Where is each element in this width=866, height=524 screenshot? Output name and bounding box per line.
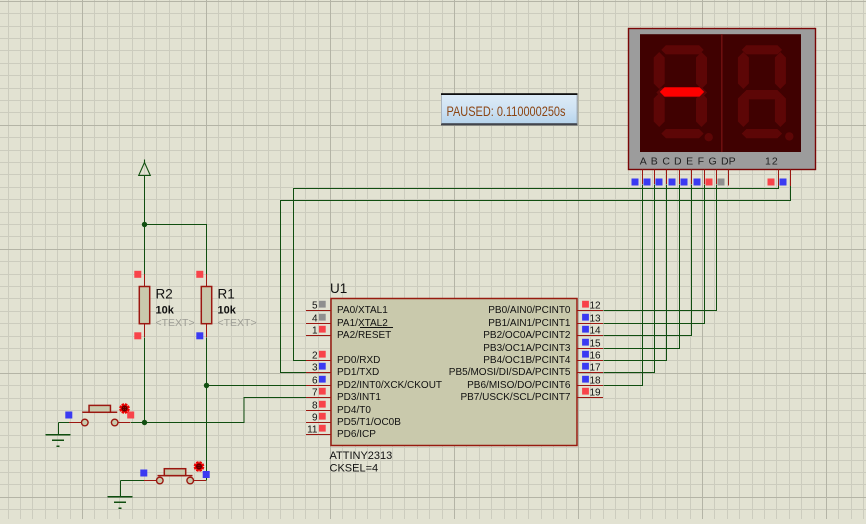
svg-text:C: C bbox=[662, 156, 670, 168]
U1 pin 15 state square bbox=[582, 339, 589, 346]
svg-text:17: 17 bbox=[590, 363, 602, 374]
svg-text:19: 19 bbox=[590, 388, 602, 399]
svg-text:B: B bbox=[651, 156, 658, 168]
U1 pin 19 number bbox=[590, 388, 602, 399]
U1 pin 3 name PD1/TXD bbox=[337, 367, 379, 378]
U1 pin 1 stub bbox=[306, 335, 331, 337]
svg-text:CKSEL=4: CKSEL=4 bbox=[330, 463, 379, 475]
U1 pin 4 number bbox=[312, 314, 318, 325]
svg-text:PD6/ICP: PD6/ICP bbox=[337, 429, 376, 440]
wire display segment G to MCU pin 12 bbox=[604, 185, 717, 311]
U1 pin 18 stub bbox=[577, 385, 603, 387]
svg-text:3: 3 bbox=[312, 363, 318, 374]
U1 pin 3 stub bbox=[306, 372, 331, 374]
U1 pin 19 stub bbox=[577, 397, 603, 399]
display segment pin C state square bbox=[656, 179, 663, 186]
svg-text:PD3/INT1: PD3/INT1 bbox=[337, 392, 381, 403]
U1 pin 7 state square bbox=[319, 388, 326, 395]
wire display segment D to MCU pin 15 bbox=[604, 185, 680, 349]
svg-text:E: E bbox=[686, 156, 693, 168]
U1 pin 11 name PD6/ICP bbox=[337, 429, 376, 440]
svg-text:18: 18 bbox=[590, 376, 602, 387]
svg-text:PD2/INT0/XCK/CKOUT: PD2/INT0/XCK/CKOUT bbox=[337, 380, 442, 391]
display DIG2 pin stub bbox=[790, 170, 792, 187]
wire junction C to MCU pin 6 PD2 bbox=[207, 385, 307, 387]
display segment pin F state square bbox=[694, 179, 701, 186]
resistor R2 bbox=[139, 274, 149, 337]
U1 pin 7 stub bbox=[306, 397, 331, 399]
display segment pin B stub bbox=[654, 170, 656, 185]
svg-text:PB6/MISO/DO/PCINT6: PB6/MISO/DO/PCINT6 bbox=[467, 380, 571, 391]
R1 value 10k bbox=[218, 305, 237, 317]
U1 pin 13 stub bbox=[577, 323, 603, 325]
wire VCC arrow to junction A bbox=[144, 176, 146, 225]
U1 pin 13 name PB1/AIN1/PCINT1 bbox=[488, 318, 571, 329]
SW1 left terminal state square bbox=[65, 412, 72, 419]
U1 pin 8 state square bbox=[319, 401, 326, 408]
7-segment display body bbox=[629, 29, 816, 170]
svg-text:12: 12 bbox=[590, 301, 602, 312]
SW2 right terminal state square bbox=[203, 471, 210, 478]
U1 pin 6 stub bbox=[306, 385, 331, 387]
ground symbol GND2 bbox=[107, 497, 132, 509]
svg-text:11: 11 bbox=[307, 425, 318, 436]
svg-text:12: 12 bbox=[765, 156, 779, 168]
display segment pin E stub bbox=[691, 170, 693, 185]
wire button SW2 left to ground bbox=[121, 481, 145, 497]
wire junction C to button SW2 right terminal bbox=[206, 386, 208, 481]
svg-text:R2: R2 bbox=[156, 287, 173, 302]
svg-text:4: 4 bbox=[312, 314, 318, 325]
svg-text:PB7/USCK/SCL/PCINT7: PB7/USCK/SCL/PCINT7 bbox=[460, 392, 570, 403]
svg-text:PB4/OC1B/PCINT4: PB4/OC1B/PCINT4 bbox=[483, 355, 571, 366]
U1 pin 8 number bbox=[312, 401, 318, 412]
U1 pin 4 name PA1/XTAL2 bbox=[337, 318, 388, 329]
svg-text:PB5/MOSI/DI/SDA/PCINT5: PB5/MOSI/DI/SDA/PCINT5 bbox=[449, 367, 571, 378]
svg-text:6: 6 bbox=[312, 376, 318, 387]
U1 pin 1 state square bbox=[319, 326, 326, 333]
svg-text:A: A bbox=[640, 156, 647, 168]
wire junction A to R2 top bbox=[144, 225, 146, 275]
U1 pin 6 state square bbox=[319, 376, 326, 383]
wire display segment E to MCU pin 14 bbox=[604, 185, 692, 336]
U1 property CKSEL=4 bbox=[330, 463, 379, 475]
svg-text:ATTINY2313: ATTINY2313 bbox=[330, 450, 393, 462]
node A junction dot bbox=[142, 222, 147, 227]
resistor R1 bbox=[201, 274, 211, 337]
U1 pin 5 name PA0/XTAL1 bbox=[337, 305, 388, 316]
SW2 left terminal state square bbox=[140, 470, 147, 477]
U1 pin 1 name PA2/RESET bbox=[337, 328, 393, 342]
U1 pin 9 number bbox=[312, 413, 318, 424]
svg-text:PA0/XTAL1: PA0/XTAL1 bbox=[337, 305, 388, 316]
simulation PAUSED message box bbox=[441, 93, 578, 125]
svg-text:9: 9 bbox=[312, 413, 318, 424]
svg-text:PB0/AIN0/PCINT0: PB0/AIN0/PCINT0 bbox=[488, 305, 571, 316]
U1 pin 5 stub bbox=[306, 310, 331, 312]
U1 pin 15 stub bbox=[577, 348, 603, 350]
display segment pin G stub bbox=[716, 170, 718, 185]
wire display segment B to MCU pin 17 bbox=[604, 185, 655, 373]
MCU U1 ATTINY2313 body bbox=[331, 299, 577, 446]
svg-text:U1: U1 bbox=[330, 281, 347, 296]
U1 pin 13 state square bbox=[582, 314, 589, 321]
U1 pin 12 name PB0/AIN0/PCINT0 bbox=[488, 305, 571, 316]
R2 label bbox=[156, 287, 173, 302]
U1 pin 4 stub bbox=[306, 323, 331, 325]
U1 pin 7 name PD3/INT1 bbox=[337, 392, 381, 403]
svg-text:13: 13 bbox=[590, 314, 602, 325]
U1 pin 1 number bbox=[312, 326, 318, 337]
svg-text:10k: 10k bbox=[156, 305, 175, 317]
U1 pin 17 name PB5/MOSI/DI/SDA/PCINT5 bbox=[449, 367, 571, 378]
U1 pin 9 stub bbox=[306, 422, 331, 424]
SW2 actuator marker bbox=[194, 462, 204, 472]
U1 pin 13 number bbox=[590, 314, 602, 325]
push button SW2 bbox=[144, 469, 206, 484]
U1 pin 2 stub bbox=[306, 360, 331, 362]
display DP pin stub bbox=[728, 170, 730, 186]
U1 pin 6 name PD2/INT0/XCK/CKOUT bbox=[337, 380, 442, 391]
U1 pin 11 number bbox=[307, 425, 318, 436]
wire R1 bottom to junction C bbox=[206, 338, 208, 386]
U1 pin 5 state square bbox=[319, 301, 326, 308]
svg-text:<TEXT>: <TEXT> bbox=[218, 317, 257, 329]
node B junction dot bbox=[142, 420, 147, 425]
display segment pin A state square bbox=[632, 179, 639, 186]
U1 pin 8 stub bbox=[306, 410, 331, 412]
svg-text:1: 1 bbox=[312, 326, 318, 337]
svg-text:PD4/T0: PD4/T0 bbox=[337, 405, 371, 416]
svg-text:PD5/T1/OC0B: PD5/T1/OC0B bbox=[337, 417, 401, 428]
display segment pin D stub bbox=[679, 170, 681, 185]
U1 pin 6 number bbox=[312, 376, 318, 387]
U1 pin 17 number bbox=[590, 363, 602, 374]
U1 pin 2 name PD0/RXD bbox=[337, 355, 380, 366]
svg-text:PB2/OC0A/PCINT2: PB2/OC0A/PCINT2 bbox=[483, 330, 571, 341]
U1 part number ATTINY2313 bbox=[330, 450, 393, 462]
7-segment digit 1 (G segment lit, showing -) bbox=[654, 45, 713, 141]
R2 value 10k bbox=[156, 305, 175, 317]
U1 pin 14 state square bbox=[582, 326, 589, 333]
R2 bottom terminal state square bbox=[134, 332, 141, 339]
push button SW1 bbox=[69, 405, 131, 425]
R1 top terminal state square bbox=[196, 271, 203, 278]
U1 pin 11 state square bbox=[319, 425, 326, 432]
U1 pin 18 number bbox=[590, 376, 602, 387]
svg-text:7: 7 bbox=[312, 388, 318, 399]
svg-text:PB3/OC1A/PCINT3: PB3/OC1A/PCINT3 bbox=[483, 343, 571, 354]
wire button SW1 right to junction B bbox=[131, 422, 145, 424]
svg-text:16: 16 bbox=[590, 351, 602, 362]
svg-text:G: G bbox=[709, 156, 717, 168]
display segment pin F stub bbox=[704, 170, 706, 185]
svg-text:5: 5 bbox=[312, 301, 318, 312]
node C junction dot bbox=[204, 383, 209, 388]
svg-text:14: 14 bbox=[590, 326, 602, 337]
display DP pin state square bbox=[718, 179, 725, 186]
wire display DIG1 to MCU pin 2 PD0 bbox=[294, 185, 779, 361]
U1 pin 12 stub bbox=[577, 310, 603, 312]
ground symbol GND1 bbox=[45, 435, 70, 447]
svg-text:R1: R1 bbox=[218, 287, 235, 302]
display DIG1 pin stub bbox=[778, 170, 780, 187]
U1 pin 15 name PB3/OC1A/PCINT3 bbox=[483, 343, 571, 354]
U1 pin 5 number bbox=[312, 301, 318, 312]
U1 pin 8 name PD4/T0 bbox=[337, 405, 371, 416]
U1 pin 17 stub bbox=[577, 372, 603, 374]
svg-text:10k: 10k bbox=[218, 305, 237, 317]
display segment pin A stub bbox=[642, 170, 644, 185]
U1 pin 9 name PD5/T1/OC0B bbox=[337, 417, 401, 428]
U1 pin 12 state square bbox=[582, 301, 589, 308]
display DIG1 pin state square bbox=[768, 179, 775, 186]
U1 pin 2 number bbox=[312, 351, 318, 362]
U1 pin 9 state square bbox=[319, 413, 326, 420]
R2 top terminal state square bbox=[134, 271, 141, 278]
display segment pin B state square bbox=[644, 179, 651, 186]
svg-text:F: F bbox=[698, 156, 704, 168]
U1 pin 16 state square bbox=[582, 351, 589, 358]
svg-text:15: 15 bbox=[590, 339, 602, 350]
7-segment digit 2 (all segments unlit) bbox=[738, 45, 794, 140]
U1 pin 19 state square bbox=[582, 388, 589, 395]
U1 pin 18 name PB6/MISO/DO/PCINT6 bbox=[467, 380, 571, 391]
U1 pin 3 state square bbox=[319, 363, 326, 370]
SW1 actuator marker bbox=[120, 404, 130, 414]
svg-text:DP: DP bbox=[721, 156, 736, 168]
U1 pin 18 state square bbox=[582, 376, 589, 383]
power symbol VCC arrow bbox=[139, 160, 151, 176]
U1 pin 14 stub bbox=[577, 335, 603, 337]
svg-text:PA2/RESET: PA2/RESET bbox=[337, 330, 391, 341]
U1 pin 2 state square bbox=[319, 351, 326, 358]
svg-text:PD1/TXD: PD1/TXD bbox=[337, 367, 379, 378]
display DIG2 pin state square bbox=[780, 179, 787, 186]
wire R2 bottom to junction B bbox=[144, 338, 146, 423]
svg-text:PAUSED: 0.110000250s: PAUSED: 0.110000250s bbox=[447, 104, 566, 119]
7-segment pin letter labels bbox=[640, 156, 779, 168]
svg-text:2: 2 bbox=[312, 351, 318, 362]
R1 &lt;TEXT&gt; placeholder bbox=[218, 317, 257, 329]
wire display DIG2 to MCU pin 3 PD1 bbox=[281, 185, 791, 373]
U1 pin 11 stub bbox=[306, 434, 331, 436]
svg-text:PD0/RXD: PD0/RXD bbox=[337, 355, 380, 366]
svg-text:<TEXT>: <TEXT> bbox=[156, 317, 195, 329]
R2 &lt;TEXT&gt; placeholder bbox=[156, 317, 195, 329]
U1 pin 17 state square bbox=[582, 363, 589, 370]
wire display segment A to MCU pin 18 bbox=[604, 185, 643, 386]
svg-text:8: 8 bbox=[312, 401, 318, 412]
display segment pin E state square bbox=[681, 179, 688, 186]
U1 pin 14 name PB2/OC0A/PCINT2 bbox=[483, 330, 571, 341]
wire junction A to R1 top bbox=[145, 225, 207, 275]
SW1 right terminal state square bbox=[127, 412, 134, 419]
U1 pin 15 number bbox=[590, 339, 602, 350]
U1 pin 19 name PB7/USCK/SCL/PCINT7 bbox=[460, 392, 570, 403]
R1 label bbox=[218, 287, 235, 302]
U1 pin 7 number bbox=[312, 388, 318, 399]
svg-text:D: D bbox=[674, 156, 682, 168]
display segment pin G state square bbox=[706, 179, 713, 186]
U1 pin 16 number bbox=[590, 351, 602, 362]
wire junction B to MCU pin 7 PD3 bbox=[145, 398, 307, 423]
U1 pin 4 state square bbox=[319, 314, 326, 321]
U1 pin 3 number bbox=[312, 363, 318, 374]
svg-text:PB1/AIN1/PCINT1: PB1/AIN1/PCINT1 bbox=[488, 318, 571, 329]
R1 bottom terminal state square bbox=[196, 332, 203, 339]
U1 pin 14 number bbox=[590, 326, 602, 337]
display segment pin C stub bbox=[666, 170, 668, 185]
wire display segment C to MCU pin 16 bbox=[604, 185, 667, 361]
U1 pin 12 number bbox=[590, 301, 602, 312]
wire display segment F to MCU pin 13 bbox=[604, 185, 705, 324]
U1 reference label bbox=[330, 281, 347, 296]
U1 pin 16 stub bbox=[577, 360, 603, 362]
display segment pin D state square bbox=[669, 179, 676, 186]
wire button SW1 left to ground bbox=[59, 423, 70, 435]
U1 pin 16 name PB4/OC1B/PCINT4 bbox=[483, 355, 571, 366]
